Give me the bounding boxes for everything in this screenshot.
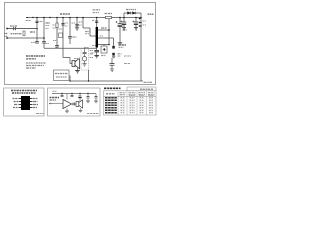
ground in box xyxy=(82,64,86,66)
capacitor IC top pin xyxy=(95,21,98,23)
power connector terminals xyxy=(139,18,141,27)
capacitor output RC xyxy=(110,64,115,66)
lamp in box xyxy=(82,57,86,61)
wire input bottom xyxy=(8,37,44,39)
wire bus drop x63 xyxy=(62,18,64,58)
op-amp U1 body bar xyxy=(96,27,98,48)
junction dots on bus xyxy=(32,17,142,46)
ground under speaker xyxy=(79,111,83,113)
label xyxy=(92,20,95,22)
wire power rail x141 xyxy=(140,13,142,81)
capacitor m4 column xyxy=(87,94,89,102)
panel box xyxy=(48,88,101,116)
wire IC pin y44.5 xyxy=(98,44,109,46)
wire top supply bus xyxy=(27,17,141,19)
capacitor m3 electrolytic xyxy=(78,96,81,98)
label C bottom xyxy=(91,52,95,54)
label GND xyxy=(118,53,122,55)
label output RC xyxy=(124,55,131,57)
wire ground rail xyxy=(44,47,97,49)
label near IC lower left xyxy=(92,45,97,47)
wire bus drop x37 xyxy=(36,18,38,42)
label rail start xyxy=(53,90,58,92)
capacitor C1 xyxy=(14,27,16,30)
table row lines xyxy=(104,99,157,112)
label IC pin y38 xyxy=(100,35,104,37)
dashed box network xyxy=(81,49,89,71)
wire IC bottom xyxy=(96,48,98,56)
resistor R3 x57 xyxy=(56,23,58,28)
node bus start terminal xyxy=(26,17,28,19)
speaker LS xyxy=(76,102,79,107)
panel corner caption xyxy=(87,113,99,115)
label x86 xyxy=(84,47,89,49)
ground under speaker xyxy=(77,68,79,71)
wire bus drop x77 xyxy=(76,18,78,28)
capacitor C4 bottom x57 xyxy=(55,46,59,48)
wire speaker feed xyxy=(63,58,72,64)
diode D1 xyxy=(128,12,131,15)
label C3 third row xyxy=(46,28,49,30)
label x70 xyxy=(72,22,76,24)
capacitor in box xyxy=(83,52,87,53)
label C5 xyxy=(65,22,68,24)
wire amp power feed xyxy=(66,94,68,100)
speaker LS1 xyxy=(72,61,75,67)
capacitor C9 x124 xyxy=(122,22,126,24)
label figure caption xyxy=(144,81,153,83)
panel corner caption xyxy=(36,113,44,115)
label x77 xyxy=(79,21,82,23)
table header underline xyxy=(104,95,157,97)
pin labels right xyxy=(33,99,38,108)
label R4 xyxy=(105,13,113,15)
label R2 xyxy=(30,31,35,33)
IC DIP-8 body xyxy=(21,96,30,110)
capacitor m5 column xyxy=(95,94,97,102)
capacitor C5 x63 xyxy=(61,24,64,26)
wire IC top pin xyxy=(96,18,98,28)
table outer box xyxy=(104,91,157,115)
wire feedback left xyxy=(83,18,96,37)
note box xyxy=(54,70,70,81)
pins right xyxy=(30,99,33,108)
label bottom cap x44 xyxy=(46,43,50,45)
ground x136 xyxy=(134,28,138,30)
label C3 xyxy=(46,22,51,24)
label INPUT xyxy=(4,33,8,35)
wire gnd rail bottom xyxy=(70,70,143,81)
capacitor C2 bottom x37 xyxy=(35,41,39,43)
capacitor C7 x77 xyxy=(75,24,78,26)
diode D1b xyxy=(133,12,136,15)
capacitor C3 bottom x44 xyxy=(42,41,46,43)
label near feedback xyxy=(85,31,90,33)
note text block xyxy=(26,56,46,68)
capacitor m1 xyxy=(61,95,64,96)
table title xyxy=(104,87,121,89)
wire in box xyxy=(84,49,86,64)
label U1 pin xyxy=(101,27,107,29)
wire diode branch xyxy=(124,13,141,18)
pin labels left xyxy=(13,99,19,108)
data rows xyxy=(105,98,117,113)
wire IC pin out right y30 xyxy=(98,29,109,31)
label LS1 xyxy=(74,58,80,60)
label C1 xyxy=(10,25,17,27)
capacitor C10 x136 xyxy=(134,22,138,24)
wire input top xyxy=(8,28,37,30)
label D1 xyxy=(126,9,136,11)
panel box xyxy=(4,88,45,116)
table column lines xyxy=(118,91,147,115)
capacitor C8 electrolytic x120 xyxy=(118,24,123,26)
label top bus xyxy=(60,13,70,15)
label x57 low xyxy=(53,40,56,42)
wire output RC xyxy=(111,58,113,69)
capacitor m2 xyxy=(71,95,74,96)
wire amp to speaker xyxy=(72,103,77,105)
node OUT terminal xyxy=(112,46,115,49)
capacitor IC bottom xyxy=(94,50,99,51)
table group header cell xyxy=(127,87,156,91)
wire right vertical x109 xyxy=(108,18,110,45)
label R x57 xyxy=(53,24,57,26)
ground under amp xyxy=(65,111,69,113)
wire IC pin y38 to out terminal xyxy=(98,38,114,46)
input terminal xyxy=(50,103,53,104)
label C8 xyxy=(123,29,128,31)
panel title xyxy=(11,90,37,92)
wire bus drop x70 xyxy=(69,18,71,45)
wire bus drop x57 xyxy=(56,18,58,49)
border frame (main schematic) xyxy=(5,3,156,85)
capacitor C2a x37 upper xyxy=(35,21,38,22)
ground x77 xyxy=(75,28,79,30)
capacitor coupling mid panel xyxy=(73,103,74,106)
wire box D2 stub xyxy=(103,45,105,47)
label D2 xyxy=(101,55,106,57)
capacitor C6 x70 xyxy=(68,37,72,39)
label +V supply xyxy=(148,13,155,15)
ground x120 xyxy=(118,43,123,45)
label IC1 above bus xyxy=(93,9,101,11)
wire diode cap x124 xyxy=(123,18,125,28)
resistor R1 vertical xyxy=(23,31,25,36)
label row mid components xyxy=(11,33,23,35)
resistor R4 on bus xyxy=(106,16,112,18)
wire top rail xyxy=(52,93,96,95)
diode D2 box xyxy=(101,46,107,53)
wire bus drop x44 xyxy=(43,18,45,49)
ground below IC xyxy=(94,56,99,58)
wire supply cap column x120 xyxy=(119,18,121,43)
label C6 xyxy=(73,36,77,38)
component box x60 xyxy=(59,33,63,38)
label OUT xyxy=(119,44,127,46)
header cell texts xyxy=(106,93,115,95)
op-amp triangle xyxy=(63,100,72,109)
label bottom cap x37 xyxy=(31,42,36,44)
terminal input jacks xyxy=(6,28,8,39)
node GND terminal xyxy=(112,53,115,56)
ground x124 xyxy=(122,28,126,30)
label boxed network xyxy=(90,50,94,52)
wire diode cap x136 xyxy=(135,18,137,28)
label TDA part xyxy=(50,97,60,99)
ground output RC xyxy=(110,69,114,71)
pins left xyxy=(19,99,22,108)
label C2a xyxy=(40,21,44,23)
